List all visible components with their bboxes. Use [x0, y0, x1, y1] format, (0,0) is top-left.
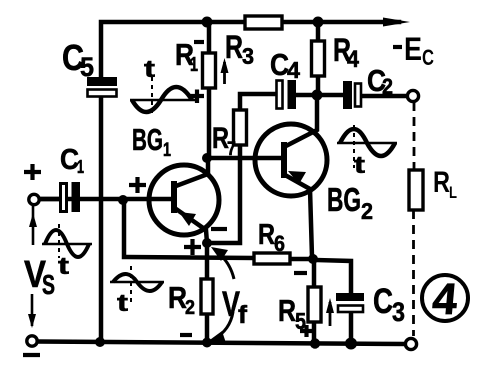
svg-text:1: 1 [190, 54, 198, 76]
svg-text:5: 5 [80, 52, 94, 82]
svg-text:f: f [238, 301, 248, 329]
svg-text:t: t [144, 56, 155, 83]
svg-text:E: E [404, 31, 422, 67]
svg-text:4: 4 [347, 46, 360, 73]
svg-text:2: 2 [382, 74, 393, 99]
svg-text:L: L [449, 183, 457, 202]
svg-text:R: R [433, 166, 450, 199]
svg-text:7: 7 [227, 139, 236, 160]
svg-text:3: 3 [392, 297, 405, 327]
svg-text:S: S [42, 269, 55, 300]
svg-text:t: t [354, 152, 365, 179]
svg-text:R: R [258, 219, 275, 251]
svg-text:4: 4 [287, 57, 300, 83]
svg-text:1: 1 [77, 157, 84, 177]
svg-text:6: 6 [274, 231, 285, 256]
svg-text:C: C [373, 282, 393, 321]
svg-text:R: R [278, 293, 296, 328]
svg-text:2: 2 [361, 198, 373, 224]
svg-text:2: 2 [185, 297, 195, 319]
svg-text:t: t [117, 290, 128, 317]
svg-text:3: 3 [242, 43, 254, 69]
svg-text:C: C [422, 45, 434, 70]
svg-text:BG: BG [327, 181, 361, 218]
svg-text:R: R [225, 29, 243, 65]
svg-text:t: t [58, 253, 69, 280]
svg-text:1: 1 [163, 140, 171, 161]
svg-text:4: 4 [430, 275, 459, 324]
svg-text:BG: BG [132, 122, 163, 157]
svg-text:5: 5 [295, 308, 306, 334]
